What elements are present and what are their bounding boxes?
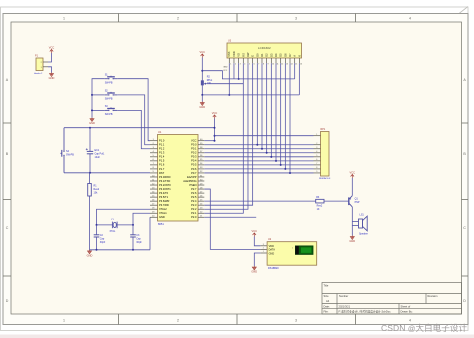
- mcu pin 5 (P1.4): [150, 156, 158, 158]
- svg-text:D: D: [6, 299, 9, 303]
- wire P2.7 to DS18B20 DATA: [204, 189, 260, 249]
- svg-text:25: 25: [200, 199, 202, 201]
- mcu pin 21 (P2.0): [198, 216, 204, 218]
- svg-text:10: 10: [152, 175, 154, 177]
- svg-text:5: 5: [153, 155, 154, 157]
- sensor U2 (DS18B20): [267, 242, 317, 266]
- mcu pin 24 (P2.3): [198, 204, 204, 206]
- svg-text:P1.0: P1.0: [159, 139, 165, 143]
- svg-text:P2.6: P2.6: [191, 191, 197, 195]
- power VCC above R2: [201, 54, 204, 58]
- mcu pin 18 (XTAL2): [150, 208, 158, 210]
- wire pot gnd stub: [201, 95, 203, 102]
- svg-text:31: 31: [200, 175, 202, 177]
- svg-text:P0.3: P0.3: [191, 155, 197, 159]
- svg-text:9: 9: [316, 171, 317, 173]
- wire P0.4 to RP1: [204, 160, 313, 162]
- lcd pin 7 (D0): [256, 58, 258, 63]
- svg-text:23: 23: [200, 208, 202, 210]
- mcu pin 14 (P3.4/T0): [150, 192, 158, 194]
- power VCC at P1: [50, 49, 53, 53]
- mcu pin 28 (P2.7): [198, 188, 204, 190]
- svg-text:P3.5/T1: P3.5/T1: [159, 195, 169, 199]
- svg-text:15: 15: [152, 195, 154, 197]
- lcd pin 8 (D1): [261, 58, 263, 63]
- svg-text:36: 36: [200, 155, 202, 157]
- wire LCD VSS to gnd rail: [228, 63, 230, 95]
- lcd pin 2 (VDD): [233, 58, 235, 63]
- capacitor C3 (30pF): [132, 225, 134, 235]
- wire LCD D5 to P0.5: [280, 63, 282, 165]
- svg-text:Sheet of: Sheet of: [401, 304, 411, 308]
- pin 2 of P1: [43, 61, 48, 63]
- svg-text:D: D: [463, 299, 466, 303]
- svg-text:13: 13: [286, 63, 288, 65]
- svg-text:15: 15: [295, 63, 297, 65]
- RP1 pin 9: [314, 172, 321, 174]
- lcd pin 13 (D6): [284, 58, 286, 63]
- RP1 pin 8: [314, 168, 321, 170]
- wire VCC rail of reset circuit: [64, 127, 215, 129]
- svg-text:29: 29: [200, 183, 202, 185]
- lcd pin 10 (D3): [270, 58, 272, 63]
- mcu pin 15 (P3.5/T1): [150, 196, 158, 198]
- svg-text:RS: RS: [241, 53, 245, 57]
- svg-text:7: 7: [316, 163, 317, 165]
- svg-text:7: 7: [258, 63, 259, 65]
- junction D4: [275, 160, 277, 162]
- svg-text:3: 3: [316, 147, 317, 149]
- svg-text:File:: File:: [324, 310, 329, 314]
- svg-text:P3.6/WR: P3.6/WR: [159, 199, 170, 203]
- svg-text:6: 6: [316, 159, 317, 161]
- mcu pin 16 (P3.6/WR): [150, 200, 158, 202]
- lcd pin 6 (E): [252, 58, 254, 63]
- svg-text:VCC: VCC: [223, 70, 228, 72]
- svg-text:P0.0: P0.0: [191, 143, 197, 147]
- wire LCD D6 to P0.6: [284, 63, 286, 169]
- svg-text:GND: GND: [269, 252, 275, 255]
- wire VCC to Q1 emitter: [351, 178, 353, 196]
- svg-text:24: 24: [200, 203, 202, 205]
- wire P0.6 to RP1: [204, 168, 313, 170]
- svg-text:GND: GND: [349, 239, 355, 243]
- svg-text:F:\本科毕业设计\..\单片机温度计设计.SchDoc: F:\本科毕业设计\..\单片机温度计设计.SchDoc: [339, 310, 392, 314]
- svg-text:4: 4: [409, 17, 411, 21]
- svg-text:P0.6: P0.6: [191, 167, 197, 171]
- lcd pin 9 (D2): [266, 58, 268, 63]
- svg-text:19: 19: [152, 212, 154, 214]
- RP1 pin 2: [314, 144, 321, 146]
- svg-text:20: 20: [152, 216, 154, 218]
- svg-text:28: 28: [200, 187, 202, 189]
- mcu pin 7 (P1.6): [150, 164, 158, 166]
- mcu pin 38 (P0.1): [198, 148, 204, 150]
- mcu pin 27 (P2.6): [198, 192, 204, 194]
- mcu pin 34 (P0.5): [198, 164, 204, 166]
- mcu pin 32 (P0.7): [198, 172, 204, 174]
- svg-text:VCC: VCC: [191, 139, 197, 143]
- wire switch common bus to ground: [92, 79, 105, 118]
- lcd pin 16 (K): [298, 58, 300, 63]
- svg-text:D0: D0: [255, 53, 259, 57]
- svg-text:1: 1: [263, 251, 264, 253]
- svg-text:4: 4: [244, 63, 245, 65]
- svg-text:Drawn By:: Drawn By:: [401, 310, 413, 314]
- RP1 pin 1 (common): [314, 135, 321, 137]
- wire LCD D2 to P0.2: [266, 63, 268, 153]
- svg-text:6: 6: [153, 159, 154, 161]
- svg-text:SW-PB: SW-PB: [105, 98, 113, 101]
- mcu pin 13 (P3.3/INT1): [150, 188, 158, 190]
- svg-text:RESPACK-8: RESPACK-8: [319, 177, 331, 180]
- DS18B20 display graphic: [295, 246, 313, 255]
- svg-text:P3.3/INT1: P3.3/INT1: [159, 187, 171, 191]
- junction VCC/respack common: [214, 135, 216, 137]
- junction VO: [238, 78, 240, 80]
- svg-text:10: 10: [272, 63, 274, 65]
- mcu pin 17 (P3.7/RD): [150, 204, 158, 206]
- svg-text:1: 1: [153, 139, 154, 141]
- wire vcc branch to LCD backlight: [202, 71, 294, 79]
- svg-text:1: 1: [292, 247, 293, 249]
- mcu pin 36 (P0.3): [198, 156, 204, 158]
- connector P1: [36, 58, 43, 71]
- wire LCD RS to P2.1: [204, 63, 243, 213]
- wire to speaker pins: [352, 221, 358, 223]
- svg-text:VCC: VCC: [350, 171, 356, 175]
- wire XTAL2 to crystal: [97, 209, 151, 225]
- crystal Y1 (XTAL): [112, 222, 117, 229]
- ground of crystal rail: [88, 250, 92, 254]
- wire gnd rail under LCD: [202, 94, 299, 96]
- svg-text:2: 2: [235, 63, 236, 65]
- resistor R3 (1K): [316, 199, 324, 203]
- transistor Q1 (PNP): [349, 196, 353, 207]
- RP1 pin 5: [314, 156, 321, 158]
- mcu pin 8 (P1.7): [150, 168, 158, 170]
- svg-text:DS18B20: DS18B20: [268, 267, 279, 270]
- svg-text:SW-PB: SW-PB: [105, 81, 113, 84]
- svg-text:P1.6: P1.6: [159, 163, 165, 167]
- svg-text:5: 5: [249, 63, 250, 65]
- svg-text:Header 2: Header 2: [34, 73, 43, 75]
- svg-text:VCC: VCC: [49, 46, 55, 50]
- svg-text:EA/VPP: EA/VPP: [187, 175, 197, 179]
- mcu pin 3 (P1.2): [150, 148, 158, 150]
- junction D6: [284, 168, 286, 170]
- wire P0.2 to RP1: [204, 152, 313, 154]
- svg-text:P3.4/T0: P3.4/T0: [159, 191, 169, 195]
- svg-text:U1: U1: [158, 130, 162, 134]
- wire LCD D3 to P0.3: [270, 63, 272, 157]
- svg-text:K: K: [297, 55, 301, 57]
- svg-text:VCC: VCC: [200, 50, 206, 54]
- wire crystal rail: [97, 224, 134, 226]
- switch S3 (SW-PB): [105, 107, 118, 110]
- svg-text:27: 27: [200, 191, 202, 193]
- ground under R2: [200, 102, 204, 106]
- svg-text:LCD1602: LCD1602: [258, 46, 271, 50]
- svg-text:P1.7: P1.7: [159, 167, 165, 171]
- wire LCD RW to P2.2: [204, 63, 248, 209]
- mcu pin 20 (GND): [150, 216, 158, 218]
- wire ground rail under crystal: [90, 249, 151, 251]
- svg-text:P2.0: P2.0: [191, 215, 197, 219]
- junction VCC/mcu pin: [214, 140, 216, 142]
- svg-text:38: 38: [200, 147, 202, 149]
- potentiometer R2 (RPot 10K): [201, 81, 203, 85]
- svg-text:D5: D5: [279, 53, 283, 57]
- mcu U1 (8051): [158, 135, 199, 222]
- svg-text:RST: RST: [159, 171, 165, 175]
- capacitor EC1 (Cap Pol1 10uF): [89, 128, 91, 152]
- svg-text:P3.1/TXD: P3.1/TXD: [159, 179, 170, 183]
- lcd pin 15 (A): [294, 58, 296, 63]
- svg-text:P2.4: P2.4: [191, 199, 197, 203]
- lcd pin 1 (VSS): [228, 58, 230, 63]
- junction VSS: [228, 94, 230, 96]
- wire LCD K (backlight-) to gnd rail: [298, 63, 300, 95]
- mcu pin 33 (P0.6): [198, 168, 204, 170]
- wire LCD VO to wiper line: [238, 63, 240, 79]
- svg-text:12: 12: [152, 183, 154, 185]
- wire LCD D4 to P0.4: [275, 63, 277, 161]
- wire P2.0 stub line: [204, 216, 256, 218]
- svg-text:Revision: Revision: [428, 294, 439, 298]
- svg-text:P0.2: P0.2: [191, 151, 197, 155]
- svg-text:GND: GND: [87, 253, 93, 257]
- svg-text:XTAL2: XTAL2: [159, 207, 167, 211]
- svg-text:1: 1: [63, 17, 65, 21]
- svg-text:40: 40: [200, 139, 202, 141]
- wire LCD E to P2.3: [204, 63, 252, 205]
- junction C3 gnd: [132, 249, 134, 251]
- svg-text:VDD: VDD: [232, 51, 236, 57]
- mcu pin 39 (P0.0): [198, 144, 204, 146]
- junction D1: [261, 148, 263, 150]
- svg-text:2: 2: [263, 248, 264, 250]
- mcu pin 19 (XTAL1): [150, 212, 158, 214]
- wire LCD A (backlight+) to vcc line: [294, 63, 296, 79]
- svg-text:35: 35: [200, 159, 202, 161]
- mcu pin 37 (P0.2): [198, 152, 204, 154]
- svg-text:RW: RW: [246, 52, 250, 57]
- svg-text:3: 3: [263, 244, 264, 246]
- wire P1 pin1 to GND: [48, 67, 52, 73]
- ground of DS18B20: [252, 266, 256, 270]
- svg-text:9: 9: [268, 63, 269, 65]
- svg-text:37: 37: [200, 151, 202, 153]
- wire VCC vertical: [214, 119, 216, 141]
- ground under speaker: [350, 236, 354, 240]
- svg-text:C: C: [6, 226, 9, 230]
- junction crystal right: [132, 224, 134, 226]
- wire S1 to P1.0: [117, 79, 150, 141]
- mcu pin 23 (P2.2): [198, 208, 204, 210]
- junction C2 gnd: [96, 249, 98, 251]
- mcu pin 31 (EA/VPP): [198, 176, 204, 178]
- mcu pin 9 (RST): [150, 172, 158, 174]
- wire GND pin down: [254, 253, 260, 266]
- svg-text:P3.7/RD: P3.7/RD: [159, 203, 169, 207]
- svg-text:4: 4: [153, 151, 154, 153]
- svg-text:GND: GND: [49, 76, 55, 80]
- svg-text:21: 21: [200, 216, 202, 218]
- RP1 pin 4: [314, 152, 321, 154]
- svg-text:DATA: DATA: [269, 249, 276, 252]
- wire pot wiper: [207, 83, 244, 85]
- svg-text:4: 4: [409, 318, 411, 322]
- svg-text:16: 16: [300, 63, 302, 65]
- speaker LS1: [359, 216, 368, 231]
- mcu pin 40 (VCC): [198, 140, 204, 142]
- wire S3 to P1.2: [117, 110, 150, 148]
- svg-text:ALE/PROG: ALE/PROG: [183, 179, 196, 183]
- DS18B20 pin 3 (VDD): [260, 245, 266, 247]
- mcu pin 10 (P3.0/RXD): [150, 176, 158, 178]
- junction VCC/reset rail: [214, 127, 216, 129]
- junction reset node: [89, 172, 91, 174]
- svg-text:SW-PB: SW-PB: [105, 113, 113, 116]
- mcu pin 6 (P1.5): [150, 160, 158, 162]
- wire Q1 collector to speaker/gnd: [351, 207, 353, 236]
- pin 1 of P1: [43, 66, 48, 68]
- svg-text:D6: D6: [283, 53, 287, 57]
- svg-text:8: 8: [263, 63, 264, 65]
- svg-text:GND: GND: [223, 67, 228, 69]
- svg-text:PNP: PNP: [355, 201, 360, 204]
- svg-text:2: 2: [177, 318, 179, 322]
- power VCC above MCU: [213, 115, 216, 119]
- wire LCD D1 to P0.1: [261, 63, 263, 149]
- svg-text:P1.2: P1.2: [159, 147, 165, 151]
- resistor R1 (Res2 10k): [89, 173, 91, 184]
- svg-text:11: 11: [277, 63, 279, 65]
- junction on switch bus: [91, 94, 93, 96]
- DS18B20 pin 1 (GND): [260, 252, 266, 254]
- svg-text:Title: Title: [324, 284, 329, 288]
- svg-text:D3: D3: [269, 53, 273, 57]
- svg-text:LS1: LS1: [360, 214, 365, 217]
- mcu pin 2 (P1.1): [150, 144, 158, 146]
- svg-text:8: 8: [316, 167, 317, 169]
- svg-text:D2: D2: [265, 53, 269, 57]
- wire P0.0 to RP1: [204, 144, 313, 146]
- svg-text:2021/3/21: 2021/3/21: [339, 304, 351, 308]
- svg-text:D7: D7: [288, 53, 292, 57]
- svg-text:P2.2: P2.2: [191, 207, 197, 211]
- mcu pin 1 (P1.0): [150, 140, 158, 142]
- svg-text:5: 5: [316, 155, 317, 157]
- power VCC above Q1: [351, 174, 354, 178]
- svg-text:P2.1: P2.1: [191, 211, 197, 215]
- svg-text:13: 13: [152, 187, 154, 189]
- wire respack common: [215, 135, 314, 137]
- power VCC of DS18B20: [253, 233, 256, 237]
- svg-text:VSS: VSS: [227, 51, 231, 56]
- mcu pin 25 (P2.4): [198, 200, 204, 202]
- RP1 pin 3: [314, 148, 321, 150]
- svg-text:6: 6: [254, 63, 255, 65]
- svg-text:8: 8: [153, 167, 154, 169]
- svg-text:P3.0/RXD: P3.0/RXD: [159, 175, 171, 179]
- wire S2 to P1.1: [117, 95, 150, 145]
- wire LCD D7 to P0.7: [289, 63, 291, 173]
- svg-text:GND: GND: [199, 105, 205, 109]
- svg-text:PSEN: PSEN: [189, 183, 196, 187]
- junction pot gnd: [201, 94, 203, 96]
- junction vcc branch: [201, 70, 203, 72]
- lcd pin 4 (RS): [242, 58, 244, 63]
- svg-text:P0.7: P0.7: [191, 171, 197, 175]
- svg-text:3: 3: [295, 17, 297, 21]
- svg-text:30pF: 30pF: [136, 241, 142, 244]
- switch S2 (SW-PB): [105, 92, 118, 95]
- svg-text:VCC: VCC: [252, 229, 258, 233]
- svg-text:P2.7: P2.7: [191, 187, 197, 191]
- svg-text:3: 3: [240, 63, 241, 65]
- svg-text:VDD: VDD: [269, 245, 274, 248]
- svg-text:D4: D4: [274, 53, 278, 57]
- svg-text:A4: A4: [326, 299, 330, 303]
- svg-text:VCC: VCC: [212, 111, 218, 115]
- wire R3 to Q1 base: [324, 200, 349, 202]
- wire VCC to VDD: [254, 237, 260, 246]
- svg-text:12: 12: [281, 63, 283, 65]
- svg-text:17: 17: [152, 203, 154, 205]
- wire pot bottom to gnd rail: [201, 85, 203, 95]
- junction D5: [280, 164, 282, 166]
- lcd pin 14 (D7): [289, 58, 291, 63]
- wire P0.7 to RP1: [204, 172, 313, 174]
- RP1 pin 6: [314, 160, 321, 162]
- mcu pin 12 (P3.2/INT0): [150, 184, 158, 186]
- junction reset rail: [89, 127, 91, 129]
- svg-text:1: 1: [230, 63, 231, 65]
- ground for switches: [90, 118, 94, 122]
- mcu pin 35 (P0.4): [198, 160, 204, 162]
- wire P1 pin2 to VCC: [48, 53, 52, 62]
- lcd pin 5 (RW): [247, 58, 249, 63]
- svg-text:P0.4: P0.4: [191, 159, 197, 163]
- svg-text:9: 9: [153, 171, 154, 173]
- svg-text:2: 2: [177, 17, 179, 21]
- lcd pin 12 (D5): [280, 58, 282, 63]
- svg-text:2: 2: [153, 143, 154, 145]
- junction D0: [256, 144, 258, 146]
- svg-text:16: 16: [152, 199, 154, 201]
- svg-text:14: 14: [290, 63, 292, 65]
- junction crystal left: [96, 224, 98, 226]
- wire VCC to pot: [201, 58, 203, 81]
- junction D2: [266, 152, 268, 154]
- svg-text:P1.3: P1.3: [159, 151, 165, 155]
- svg-text:39: 39: [200, 143, 202, 145]
- capacitor C2 (30pF): [96, 225, 98, 235]
- svg-text:22: 22: [200, 212, 202, 214]
- wire MCU GND pin down to rail: [149, 217, 151, 250]
- svg-text:RP1: RP1: [321, 128, 326, 131]
- wire XTAL1 to crystal: [133, 213, 150, 225]
- wire P0.5 to RP1: [204, 164, 313, 166]
- svg-text:D1: D1: [260, 53, 264, 57]
- mcu pin 29 (PSEN): [198, 184, 204, 186]
- svg-text:30: 30: [200, 179, 202, 181]
- svg-text:18: 18: [152, 208, 154, 210]
- svg-text:1: 1: [63, 318, 65, 322]
- svg-text:P1.5: P1.5: [159, 159, 165, 163]
